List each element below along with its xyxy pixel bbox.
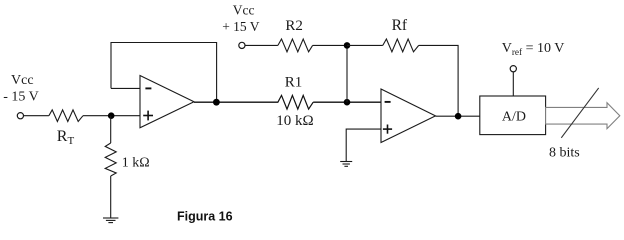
wire R1 to node C and U2 minus input [313,101,381,103]
node E (U2 output) [455,113,462,120]
U1 minus sign [145,87,151,89]
wire U2 plus input to ground [346,129,381,161]
A/D converter block [480,96,546,135]
terminal Vref [510,66,516,72]
wire node A down to 1k resistor [110,116,112,143]
svg-text:R1: R1 [285,75,303,91]
bus slash [561,88,598,138]
wire 1k to ground [110,176,112,218]
op-amp U1 (buffer) [140,76,194,128]
wire Vref terminal to A/D [512,72,514,96]
label Vcc +15 V (second supply) [222,2,260,33]
resistor Rf [383,39,419,52]
svg-text:Vref = 10 V: Vref = 10 V [502,41,565,58]
svg-text:8 bits: 8 bits [549,145,580,160]
terminal +15 V supply [239,42,245,48]
svg-text:10 kΩ: 10 kΩ [276,113,313,129]
resistor R1 [278,95,313,109]
svg-text:Vcc: Vcc [233,2,255,17]
U1 plus sign [143,111,153,121]
svg-text:+ 15 V: + 15 V [222,19,260,34]
U2 plus sign [383,125,392,134]
resistor 1 kOhm (vertical) [105,143,116,176]
ground (below 1k) [103,218,118,223]
svg-text:- 15 V: - 15 V [3,89,39,104]
wire RT to node A [83,115,140,117]
node D (R2/Rf junction top) [344,42,351,49]
ground (U2 plus input) [340,162,352,167]
svg-text:Figura 16: Figura 16 [177,210,233,224]
node C (R1/R2/Rf junction on input line) [344,99,351,106]
wire Rf to U2 output node [419,45,458,116]
wire U1 output / main line to op-amp U2 minus input [194,101,278,103]
wire terminal to R2 [245,44,278,46]
svg-text:A/D: A/D [502,109,526,124]
svg-text:Vcc: Vcc [11,73,34,88]
wire node C up to node D [346,45,348,102]
label Vcc -15 V (left supply) [3,73,39,104]
node B (U1 output) [213,99,220,106]
resistor RT [49,110,83,122]
wire node D to Rf [347,44,383,46]
wire U1 minus input [111,87,140,89]
svg-text:RT: RT [57,128,75,147]
terminal left supply [17,113,23,119]
wire R2 to node D [313,44,347,46]
resistor R2 [278,39,313,52]
bus arrow (8 bits output) [546,103,620,129]
op-amp U2 [381,89,436,143]
wire U2 output to A/D [436,115,480,117]
node A (junction RT / 1k / op-amp + input) [108,112,115,119]
svg-text:R2: R2 [285,18,303,34]
svg-text:1 kΩ: 1 kΩ [122,156,150,171]
wire terminal to RT [24,115,49,117]
feedback wire U1 output to minus input [111,43,217,103]
svg-text:Rf: Rf [392,17,408,34]
U2 minus sign [385,101,391,103]
